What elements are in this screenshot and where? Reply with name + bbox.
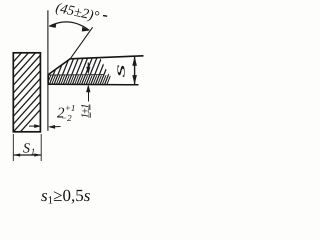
svg-text:1±1: 1±1: [79, 104, 91, 119]
svg-text:−2: −2: [61, 113, 72, 123]
svg-text:S: S: [23, 141, 30, 156]
svg-text:s: s: [113, 64, 129, 78]
svg-text:+1: +1: [65, 103, 76, 113]
svg-text:1: 1: [31, 146, 36, 156]
